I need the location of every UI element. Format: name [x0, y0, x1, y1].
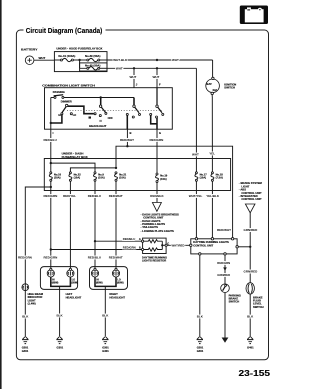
- wire control unit to parking brake switch RED/GRN: [224, 255, 226, 284]
- fuse No.10: [49, 163, 61, 181]
- svg-text:G301: G301: [57, 346, 64, 350]
- svg-text:· TAILLIGHTS: · TAILLIGHTS: [141, 225, 158, 229]
- wire YEL from IG2 down to fuse No.18: [211, 95, 213, 172]
- svg-text:HEADLIGHT: HEADLIGHT: [66, 295, 82, 299]
- svg-text:G401: G401: [247, 346, 254, 350]
- svg-text:RED/WHT: RED/WHT: [109, 256, 123, 260]
- svg-text:RED/GRN: RED/GRN: [18, 256, 32, 260]
- daytime running lights resistor: [139, 237, 169, 262]
- node bus2 feed: [115, 167, 117, 169]
- wire passing left contact down to terminal I: [50, 98, 52, 130]
- svg-text:WHT: WHT: [192, 152, 199, 156]
- svg-text:DAYTIME RUNNING LIGHTS: DAYTIME RUNNING LIGHTS: [193, 240, 229, 244]
- headlight switch pole1: [89, 98, 114, 122]
- svg-text:YEL: YEL: [209, 152, 215, 156]
- wire bus1: [51, 163, 95, 173]
- svg-text:RED/GRN: RED/GRN: [217, 261, 230, 265]
- wire pole3 contacts to terminal E: [151, 115, 157, 129]
- wire WHT second feed line: [107, 67, 196, 69]
- wire pole2 left contact to terminal B: [126, 115, 128, 129]
- svg-text:OFF: OFF: [108, 116, 114, 120]
- wire top feed drop to ignition switch BAT: [212, 60, 214, 77]
- svg-text:BAT: BAT: [207, 82, 213, 86]
- wire dimmer pivot to headlight pole1 left contact: [68, 106, 94, 114]
- svg-text:(1.4W): (1.4W): [28, 302, 36, 306]
- headlight switch pole2: [126, 98, 140, 119]
- resistor element 1: [144, 240, 163, 243]
- svg-text:BLK: BLK: [57, 313, 64, 317]
- svg-text:SWITCH: SWITCH: [224, 86, 235, 90]
- fuse No.18: [211, 172, 223, 182]
- combination light switch box: [42, 84, 172, 130]
- wire control unit ground BLK: [199, 255, 201, 337]
- fuse No.40 (50A): [80, 60, 107, 70]
- svg-text:WHT/RED: WHT/RED: [172, 243, 185, 247]
- passing switch: [51, 90, 65, 98]
- svg-text:(7.5A): (7.5A): [216, 176, 223, 180]
- svg-text:Circuit Diagram (Canada): Circuit Diagram (Canada): [26, 26, 103, 35]
- node HI join: [50, 122, 52, 124]
- ground G301/G401 right headlight: [102, 337, 109, 353]
- svg-text:(10A): (10A): [74, 176, 81, 180]
- wire WHT drop to terminal J: [133, 68, 135, 87]
- svg-text:E: E: [159, 131, 161, 135]
- ground G301 left headlight: [56, 337, 63, 350]
- node J feed: [133, 67, 135, 69]
- body ground solid: [222, 338, 229, 343]
- svg-text:RED/BLK: RED/BLK: [150, 194, 164, 198]
- svg-text:(65W): (65W): [96, 281, 103, 284]
- svg-text:RED/BLU: RED/BLU: [88, 256, 101, 260]
- svg-text:PASSING: PASSING: [53, 90, 65, 94]
- node bus1 feed: [50, 162, 52, 164]
- svg-text:HI: HI: [58, 114, 61, 117]
- svg-text:No.40 (50A): No.40 (50A): [85, 63, 100, 67]
- svg-text:WHT-BLK: WHT-BLK: [113, 58, 128, 62]
- svg-text:(55W): (55W): [71, 281, 78, 284]
- arrow to dash lights: [152, 203, 161, 212]
- svg-text:RED/BLU: RED/BLU: [44, 138, 57, 142]
- wire control unit right to GRN/RED: [238, 246, 250, 248]
- page scan edge: [0, 0, 2, 389]
- mechanical link dashes: [67, 109, 162, 111]
- svg-text:SWITCH: SWITCH: [253, 305, 264, 309]
- svg-text:HEADLIGHT: HEADLIGHT: [89, 124, 107, 128]
- svg-text:RED/GRN: RED/GRN: [123, 246, 136, 250]
- node fuse41 output: [78, 59, 80, 61]
- svg-text:RED/WHT: RED/WHT: [109, 194, 123, 198]
- svg-text:RED/YEL: RED/YEL: [63, 194, 76, 198]
- wire RED/WHT jog to fuse No.21: [116, 146, 127, 168]
- left HI bulb: [47, 268, 58, 284]
- wire RED/WHT terminal B down: [126, 129, 128, 146]
- svg-text:A: A: [139, 237, 141, 241]
- svg-text:RED/GRN: RED/GRN: [44, 194, 58, 198]
- parking brake switch: [221, 284, 241, 304]
- fuse No.9: [94, 172, 105, 182]
- wire left headlight bulbs to common ground: [51, 277, 71, 286]
- fuse No.22: [69, 172, 81, 182]
- svg-text:B: B: [130, 131, 132, 135]
- svg-text:WHT: WHT: [39, 56, 46, 60]
- svg-text:BLK: BLK: [102, 313, 109, 317]
- svg-text:HEADLIGHT: HEADLIGHT: [109, 295, 125, 299]
- svg-text:BLK: BLK: [22, 315, 29, 319]
- under-hood fuse/relay box: [54, 47, 107, 72]
- svg-text:(15A): (15A): [160, 177, 167, 181]
- svg-text:(10A): (10A): [200, 176, 207, 180]
- svg-text:WHT: WHT: [172, 58, 179, 62]
- resistor element 2: [144, 248, 163, 251]
- svg-text:GRN/RED: GRN/RED: [217, 273, 230, 277]
- svg-text:LIGHTS RESISTOR: LIGHTS RESISTOR: [142, 259, 166, 263]
- wire resistor C to control unit WHT/RED: [162, 244, 191, 246]
- svg-text:(10A): (10A): [119, 176, 126, 180]
- wire parking brake switch to body ground: [224, 293, 226, 338]
- brake fluid level switch: [246, 283, 264, 309]
- wire fuse10 output RED/GRN: [50, 181, 52, 268]
- svg-text:G401: G401: [197, 349, 204, 353]
- svg-text:C: C: [167, 241, 169, 245]
- wire branch to high beam indicator: [25, 187, 51, 284]
- daytime running lights control unit: [190, 238, 239, 255]
- ground G401 brake fluid switch: [247, 337, 254, 350]
- wire fuse17 output WHT/YEL: [195, 181, 197, 239]
- svg-text:WHT/YEL: WHT/YEL: [189, 194, 203, 198]
- svg-text:B: B: [139, 245, 141, 249]
- node resistor B branch: [50, 248, 52, 250]
- svg-text:(10A): (10A): [54, 176, 61, 180]
- svg-text:(10A): (10A): [98, 176, 105, 180]
- wire indicator BLK to ground: [24, 291, 26, 337]
- svg-text:G401: G401: [22, 349, 29, 353]
- arrow from brake system: [245, 204, 255, 213]
- node high beam indicator branch: [50, 186, 52, 188]
- svg-text:No.39 (50A): No.39 (50A): [85, 54, 100, 58]
- svg-text:WHT: WHT: [130, 75, 137, 79]
- node resistor A branch: [94, 240, 96, 242]
- fuse No.41 (100A): [54, 54, 79, 62]
- label dash lights loads: [141, 212, 179, 233]
- svg-text:CONTROL UNIT: CONTROL UNIT: [241, 197, 262, 201]
- wire WHT drop to terminal F: [156, 68, 158, 87]
- left LO bulb: [67, 268, 78, 284]
- svg-text:(65W): (65W): [117, 281, 124, 284]
- svg-text:RED/WHT: RED/WHT: [217, 228, 231, 232]
- svg-text:IG2: IG2: [213, 88, 218, 92]
- dimmer switch: [58, 100, 76, 118]
- node pole1 pivot feed: [100, 96, 102, 98]
- fuse No.39 (50A): [80, 54, 107, 62]
- right HI bulb: [91, 268, 102, 284]
- svg-text:BATTERY: BATTERY: [21, 47, 38, 51]
- battery: [21, 47, 38, 64]
- high beam indicator light: [22, 284, 44, 306]
- connector marker: [223, 267, 227, 271]
- wire dimmer HI contact to terminal I: [52, 115, 62, 123]
- fuse No.17: [195, 172, 207, 182]
- wire GRN/RED down right side: [249, 213, 251, 283]
- ground G201/G401 control unit: [197, 337, 204, 353]
- wire internal bus of light switch: [64, 97, 134, 99]
- wire battery to under-hood box: [34, 59, 55, 61]
- svg-text:YEL/BLK: YEL/BLK: [206, 194, 220, 198]
- node on top feed: [156, 59, 158, 61]
- wire resistor outputs join: [161, 241, 163, 249]
- right headlight box: [90, 267, 128, 300]
- svg-text:DIMMER: DIMMER: [61, 100, 72, 104]
- svg-text:CONTROL UNIT: CONTROL UNIT: [193, 244, 213, 248]
- wire fuse19 output RED/BLK: [156, 183, 158, 203]
- ground G201/G401 indicator: [22, 337, 29, 353]
- svg-text:BLK: BLK: [197, 315, 204, 319]
- wire RED/WHT feed to DRL control unit: [127, 146, 232, 239]
- wire bus2: [70, 168, 116, 173]
- svg-text:COMBINATION LIGHT SWITCH: COMBINATION LIGHT SWITCH: [42, 84, 94, 88]
- svg-text:UNDER - HOOD FUSE/RELAY BOX: UNDER - HOOD FUSE/RELAY BOX: [56, 47, 102, 51]
- label brake system feeds: [239, 181, 263, 201]
- svg-text:RED/BLU: RED/BLU: [88, 194, 101, 198]
- svg-text:RED/BLU: RED/BLU: [123, 237, 135, 241]
- svg-text:RED/GRN: RED/GRN: [44, 256, 58, 260]
- svg-text:GRN/RED: GRN/RED: [244, 270, 259, 274]
- svg-text:LO: LO: [73, 114, 77, 117]
- right LO bulb: [112, 268, 123, 284]
- svg-text:GRN/RED: GRN/RED: [244, 228, 259, 232]
- wire fuse22 output RED/YEL: [69, 181, 71, 268]
- node control unit right join: [249, 246, 251, 248]
- wire RED/GRN branch to resistor B: [51, 249, 142, 251]
- wire WHT-BLK / WHT top feed to ignition switch: [107, 59, 213, 61]
- svg-text:G401: G401: [102, 349, 109, 353]
- svg-text:SWITCH: SWITCH: [229, 300, 240, 304]
- node E feed: [156, 67, 158, 69]
- svg-text:RED/WHT: RED/WHT: [120, 138, 134, 142]
- headlight switch pole3: [150, 88, 164, 118]
- fuse No.21: [115, 172, 127, 182]
- wire fuse18 output YEL/BLK: [211, 181, 213, 239]
- left headlight box: [40, 267, 81, 300]
- wire fuse21 output RED/WHT: [115, 181, 117, 268]
- wire right headlight bulbs to common ground: [95, 277, 116, 286]
- ignition switch: [206, 77, 237, 94]
- wire brake fluid switch BLK to ground: [249, 294, 251, 337]
- wire fuse9 output RED/BLU: [94, 181, 96, 268]
- svg-text:No.41 (100A): No.41 (100A): [58, 54, 75, 58]
- wire RED/BLU terminal I to under-dash box: [50, 129, 52, 163]
- svg-text:WHT: WHT: [116, 67, 123, 71]
- wire WHT drop to fuse No.17: [195, 68, 197, 172]
- svg-text:RED/GRN: RED/GRN: [150, 138, 164, 142]
- svg-text:FUSE/RELAY BOX: FUSE/RELAY BOX: [62, 155, 88, 159]
- svg-text:WHT: WHT: [153, 75, 160, 79]
- svg-text:(65W): (65W): [52, 281, 59, 284]
- svg-text:BLK: BLK: [247, 315, 254, 319]
- svg-text:23-155: 23-155: [239, 368, 271, 378]
- battery page icon: [240, 6, 268, 25]
- wire RED/BLU branch to resistor A: [95, 240, 142, 242]
- svg-text:· LICENSE PLATE LIGHTS: · LICENSE PLATE LIGHTS: [141, 229, 174, 233]
- frame border: [16, 27, 268, 360]
- wire RED/GRN terminal E down to fuse No.19: [156, 129, 158, 173]
- node RED/WHT split: [126, 145, 128, 147]
- under-dash fuse/relay box: [44, 152, 230, 191]
- fuse No.19: [156, 173, 168, 183]
